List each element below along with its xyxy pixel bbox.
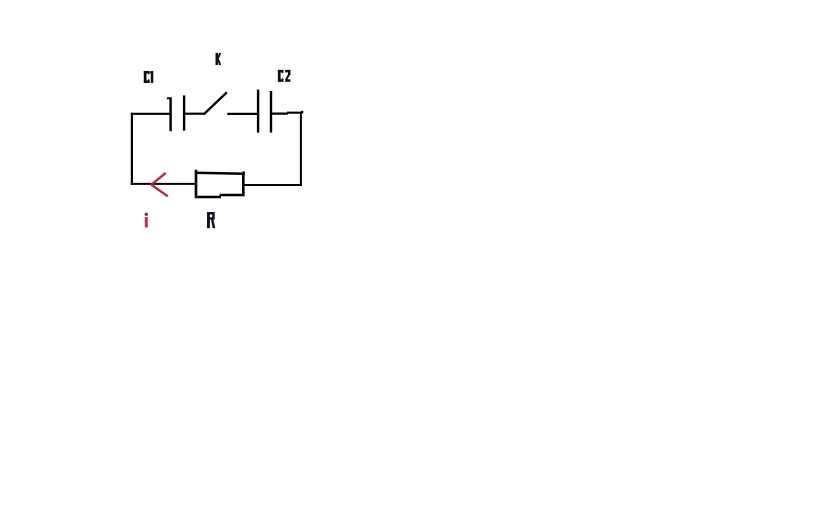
resistor R bottom edge left segment (195, 196, 221, 199)
current arrow lower stroke (red) (151, 185, 168, 197)
label C2 (278, 70, 291, 82)
current arrow upper stroke (red) (151, 173, 165, 185)
switch K blade tip nub (225, 92, 227, 94)
resistor R right edge (242, 173, 245, 197)
wire left vertical (131, 113, 133, 185)
wire right vertical (300, 112, 302, 186)
label i (red) (145, 213, 148, 228)
wire switch to C2 (227, 113, 257, 115)
wire top-right corner nub (301, 111, 303, 113)
capacitor C1 right plate (183, 95, 185, 130)
label C1 (144, 71, 154, 83)
wire bottom-right horizontal (244, 184, 302, 186)
wire bottom-left horizontal (131, 183, 197, 185)
wire top-left horizontal (131, 113, 170, 115)
resistor R left edge (195, 170, 198, 198)
resistor R bottom edge right segment (220, 194, 245, 197)
wire C2 to top-right corner (271, 112, 302, 115)
capacitor C2 left plate (257, 90, 259, 133)
resistor R top edge (195, 172, 245, 175)
switch K blade (205, 93, 226, 113)
label K (216, 53, 222, 65)
capacitor C1 left plate (169, 97, 171, 131)
capacitor C1 left plate top hook (167, 97, 171, 99)
resistor R top-right nub (243, 171, 245, 175)
label R (207, 212, 215, 228)
wire C1 to switch (184, 113, 205, 115)
capacitor C2 right plate (270, 91, 272, 133)
